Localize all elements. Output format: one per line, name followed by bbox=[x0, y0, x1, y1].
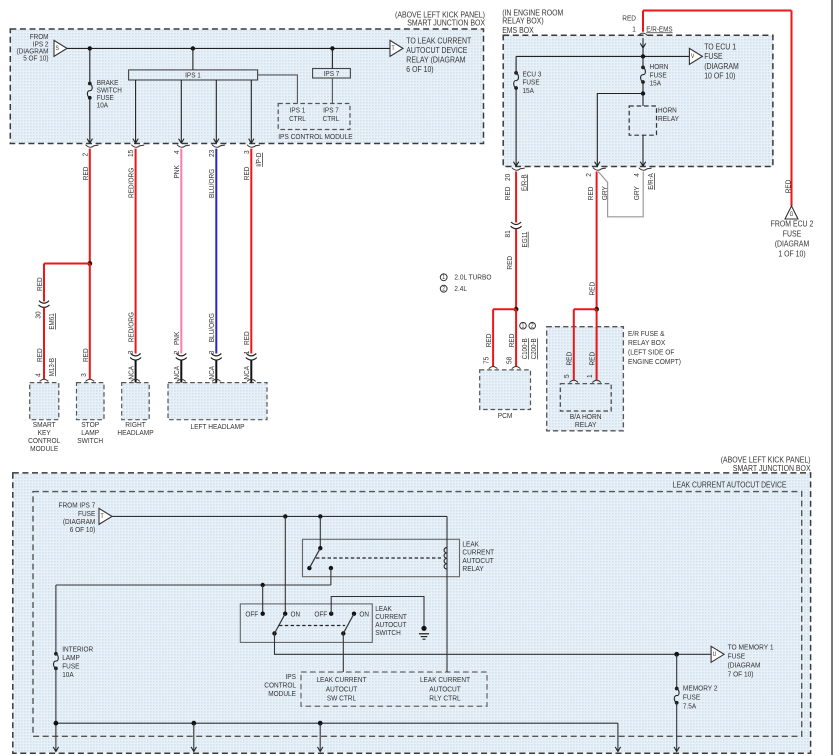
svg-text:2: 2 bbox=[584, 173, 593, 177]
svg-text:AUTOCUT DEVICE: AUTOCUT DEVICE bbox=[406, 46, 467, 55]
svg-text:RED: RED bbox=[242, 331, 251, 345]
svg-text:RELAY BOX): RELAY BOX) bbox=[502, 17, 544, 26]
svg-text:1: 1 bbox=[242, 351, 251, 355]
svg-text:ON: ON bbox=[359, 610, 369, 619]
svg-text:SMART JUNCTION BOX: SMART JUNCTION BOX bbox=[733, 464, 811, 473]
svg-text:MODULE: MODULE bbox=[268, 689, 296, 698]
svg-text:1: 1 bbox=[632, 25, 636, 34]
svg-text:LEAK CURRENT AUTOCUT DEVICE: LEAK CURRENT AUTOCUT DEVICE bbox=[673, 480, 787, 489]
svg-text:(DIAGRAM: (DIAGRAM bbox=[775, 239, 810, 248]
svg-text:EM61: EM61 bbox=[47, 313, 56, 329]
svg-text:RED: RED bbox=[783, 179, 792, 193]
svg-text:ON: ON bbox=[291, 610, 301, 619]
svg-text:1 OF 10): 1 OF 10) bbox=[778, 249, 806, 258]
svg-text:E/R-A: E/R-A bbox=[646, 173, 655, 190]
svg-text:NCA: NCA bbox=[126, 366, 135, 380]
svg-text:GRY: GRY bbox=[632, 186, 641, 200]
svg-text:RED: RED bbox=[588, 281, 597, 295]
svg-text:20: 20 bbox=[503, 174, 512, 181]
svg-text:10 OF 10): 10 OF 10) bbox=[704, 71, 735, 80]
svg-text:1: 1 bbox=[585, 374, 594, 378]
svg-text:RELAY: RELAY bbox=[658, 114, 679, 123]
svg-text:RED: RED bbox=[587, 351, 596, 365]
svg-text:SW CTRL: SW CTRL bbox=[327, 694, 356, 703]
svg-text:MODULE: MODULE bbox=[30, 444, 58, 453]
svg-text:AUTOCUT: AUTOCUT bbox=[326, 684, 358, 693]
svg-text:RELAY BOX: RELAY BOX bbox=[628, 338, 665, 347]
svg-text:SWITCH: SWITCH bbox=[375, 628, 401, 637]
svg-text:C200-B: C200-B bbox=[529, 338, 538, 359]
svg-text:3: 3 bbox=[207, 351, 216, 355]
svg-text:RED: RED bbox=[81, 166, 90, 180]
svg-text:SWITCH: SWITCH bbox=[77, 436, 103, 445]
svg-text:LEFT HEADLAMP: LEFT HEADLAMP bbox=[190, 422, 244, 431]
svg-text:AUTOCUT: AUTOCUT bbox=[429, 684, 461, 693]
svg-text:30: 30 bbox=[33, 311, 42, 318]
svg-text:7.5A: 7.5A bbox=[683, 701, 696, 710]
svg-text:RED: RED bbox=[484, 333, 493, 347]
svg-text:NCA: NCA bbox=[207, 366, 216, 380]
svg-text:3: 3 bbox=[126, 351, 135, 355]
svg-text:T: T bbox=[392, 45, 395, 52]
svg-text:15A: 15A bbox=[650, 79, 661, 88]
svg-text:M13-B: M13-B bbox=[47, 358, 56, 376]
svg-text:CONTROL: CONTROL bbox=[264, 681, 296, 690]
svg-text:5: 5 bbox=[562, 374, 571, 378]
svg-text:RED: RED bbox=[242, 166, 251, 180]
svg-text:TO LEAK CURRENT: TO LEAK CURRENT bbox=[406, 36, 471, 45]
svg-text:FUSE: FUSE bbox=[783, 230, 802, 239]
svg-text:RED: RED bbox=[503, 186, 512, 200]
svg-text:FUSE: FUSE bbox=[683, 692, 700, 701]
svg-text:RED: RED bbox=[507, 333, 516, 347]
svg-text:(DIAGRAM: (DIAGRAM bbox=[728, 661, 761, 670]
svg-text:2.4L: 2.4L bbox=[454, 284, 467, 293]
svg-text:RLY CTRL: RLY CTRL bbox=[429, 694, 460, 703]
svg-text:IPS: IPS bbox=[286, 672, 297, 681]
svg-text:RELAY: RELAY bbox=[462, 564, 483, 573]
svg-text:TO MEMORY 1: TO MEMORY 1 bbox=[728, 642, 774, 651]
svg-text:IPS 1: IPS 1 bbox=[185, 71, 201, 80]
svg-text:CTRL: CTRL bbox=[289, 114, 306, 123]
svg-text:MEMORY 2: MEMORY 2 bbox=[683, 683, 718, 692]
svg-text:IPS 7: IPS 7 bbox=[324, 69, 340, 78]
svg-text:SMART JUNCTION BOX: SMART JUNCTION BOX bbox=[407, 19, 485, 28]
svg-text:E/R-B: E/R-B bbox=[519, 174, 528, 191]
svg-text:23: 23 bbox=[207, 150, 216, 157]
svg-text:3: 3 bbox=[79, 373, 88, 377]
svg-text:LEAK CURRENT: LEAK CURRENT bbox=[420, 675, 470, 684]
svg-text:PCM: PCM bbox=[498, 411, 513, 420]
svg-text:GRY: GRY bbox=[600, 186, 609, 200]
svg-text:NCA: NCA bbox=[172, 366, 181, 380]
svg-text:2: 2 bbox=[172, 351, 181, 355]
svg-text:RED: RED bbox=[622, 14, 636, 23]
svg-text:6 OF 10): 6 OF 10) bbox=[406, 65, 434, 74]
svg-text:G: G bbox=[790, 212, 794, 218]
svg-text:RED: RED bbox=[505, 255, 514, 269]
svg-text:I/P-D: I/P-D bbox=[254, 153, 263, 167]
svg-text:10A: 10A bbox=[62, 670, 73, 679]
svg-text:RED: RED bbox=[586, 186, 595, 200]
svg-text:RED: RED bbox=[81, 348, 90, 362]
svg-text:RED: RED bbox=[565, 351, 574, 365]
svg-text:LEAK CURRENT: LEAK CURRENT bbox=[316, 675, 366, 684]
svg-text:IPS CONTROL MODULE: IPS CONTROL MODULE bbox=[278, 132, 353, 141]
svg-text:(LEFT SIDE OF: (LEFT SIDE OF bbox=[628, 348, 675, 357]
svg-text:E/R-EMS: E/R-EMS bbox=[646, 24, 672, 33]
svg-text:U: U bbox=[713, 651, 717, 658]
svg-text:S: S bbox=[56, 45, 60, 52]
svg-text:2.0L TURBO: 2.0L TURBO bbox=[454, 273, 491, 282]
svg-text:RELAY: RELAY bbox=[575, 420, 597, 429]
svg-text:FUSE: FUSE bbox=[728, 651, 746, 660]
svg-text:58: 58 bbox=[505, 357, 514, 364]
svg-text:7 OF 10): 7 OF 10) bbox=[728, 670, 754, 679]
svg-text:T: T bbox=[101, 513, 104, 520]
svg-text:NCA: NCA bbox=[242, 366, 251, 380]
svg-text:OFF: OFF bbox=[314, 610, 327, 619]
svg-text:OFF: OFF bbox=[245, 610, 258, 619]
svg-text:5 OF 10): 5 OF 10) bbox=[23, 54, 48, 63]
svg-text:3: 3 bbox=[242, 150, 251, 154]
svg-text:EMS BOX: EMS BOX bbox=[502, 26, 534, 35]
svg-text:75: 75 bbox=[482, 357, 491, 364]
svg-text:(DIAGRAM: (DIAGRAM bbox=[704, 62, 739, 71]
svg-text:RELAY (DIAGRAM: RELAY (DIAGRAM bbox=[406, 56, 465, 65]
svg-text:RED: RED bbox=[35, 277, 44, 291]
svg-text:HEADLAMP: HEADLAMP bbox=[117, 428, 153, 437]
svg-text:TO ECU 1: TO ECU 1 bbox=[704, 43, 736, 52]
svg-text:15A: 15A bbox=[523, 86, 534, 95]
svg-text:RED/ORG: RED/ORG bbox=[126, 168, 135, 198]
svg-text:EG11: EG11 bbox=[520, 232, 529, 248]
svg-text:PNK: PNK bbox=[172, 332, 181, 345]
svg-text:4: 4 bbox=[33, 373, 42, 377]
svg-text:FROM ECU 2: FROM ECU 2 bbox=[771, 220, 814, 229]
svg-text:BLU/ORG: BLU/ORG bbox=[207, 169, 216, 198]
svg-text:RED: RED bbox=[35, 348, 44, 362]
svg-text:15: 15 bbox=[126, 150, 135, 157]
svg-text:2: 2 bbox=[81, 153, 90, 157]
svg-text:10A: 10A bbox=[97, 101, 108, 110]
svg-text:4: 4 bbox=[632, 173, 641, 177]
svg-text:ENGINE COMPT): ENGINE COMPT) bbox=[628, 357, 681, 366]
svg-text:E/R FUSE &: E/R FUSE & bbox=[628, 329, 665, 338]
svg-text:PNK: PNK bbox=[172, 165, 181, 178]
svg-text:V: V bbox=[691, 53, 695, 60]
svg-text:RED/ORG: RED/ORG bbox=[126, 312, 135, 342]
svg-text:C100-B: C100-B bbox=[520, 338, 529, 359]
svg-text:6 OF 10): 6 OF 10) bbox=[70, 525, 96, 534]
svg-text:BLU/ORG: BLU/ORG bbox=[207, 313, 216, 342]
svg-text:4: 4 bbox=[172, 150, 181, 154]
svg-text:81: 81 bbox=[503, 230, 512, 237]
svg-text:CTRL: CTRL bbox=[323, 114, 340, 123]
svg-text:FUSE: FUSE bbox=[704, 52, 723, 61]
